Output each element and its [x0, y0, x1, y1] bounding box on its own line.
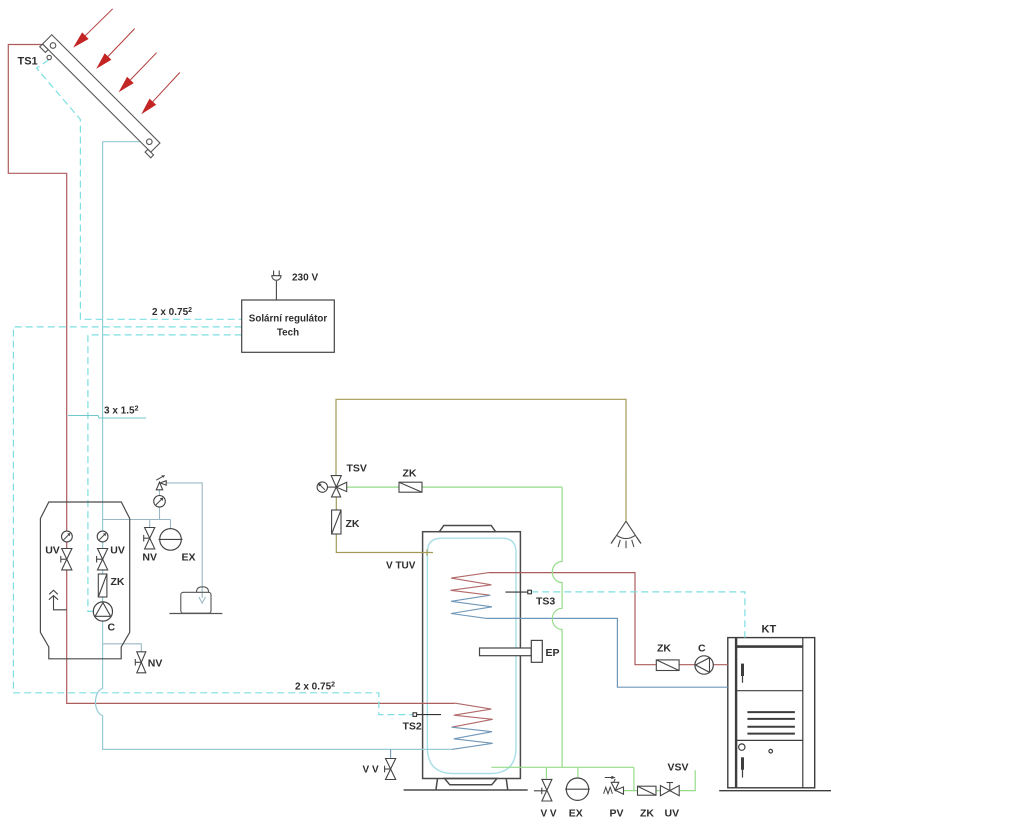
- svg-text:V V: V V: [540, 809, 556, 819]
- svg-text:ZK: ZK: [657, 643, 671, 655]
- svg-text:ZK: ZK: [640, 808, 654, 819]
- svg-text:NV: NV: [148, 658, 163, 670]
- svg-text:NV: NV: [142, 552, 157, 564]
- svg-text:UV: UV: [110, 545, 125, 557]
- svg-text:V TUV: V TUV: [386, 561, 416, 572]
- svg-text:ZK: ZK: [346, 518, 360, 530]
- svg-text:ZK: ZK: [111, 576, 125, 588]
- svg-text:C: C: [108, 622, 116, 634]
- svg-text:PV: PV: [609, 808, 623, 819]
- svg-text:V V: V V: [363, 765, 379, 776]
- svg-text:KT: KT: [762, 624, 777, 636]
- svg-text:TSV: TSV: [347, 463, 367, 475]
- svg-text:VSV: VSV: [668, 762, 689, 774]
- svg-text:C: C: [698, 643, 706, 655]
- svg-text:EX: EX: [181, 552, 195, 564]
- svg-text:Solární regulátor: Solární regulátor: [249, 314, 328, 325]
- svg-text:TS1: TS1: [18, 56, 38, 68]
- svg-text:2 x 0.752: 2 x 0.752: [295, 682, 335, 693]
- svg-text:Tech: Tech: [277, 328, 299, 339]
- svg-text:2 x 0.752: 2 x 0.752: [152, 307, 192, 318]
- svg-text:EX: EX: [569, 808, 583, 819]
- svg-text:EP: EP: [546, 647, 560, 659]
- svg-text:UV: UV: [665, 808, 680, 819]
- svg-text:ZK: ZK: [403, 468, 417, 480]
- svg-text:230 V: 230 V: [292, 273, 318, 284]
- svg-text:TS2: TS2: [403, 721, 422, 733]
- svg-text:3 x 1.52: 3 x 1.52: [104, 406, 139, 417]
- svg-text:TS3: TS3: [536, 596, 555, 608]
- svg-text:UV: UV: [45, 545, 60, 557]
